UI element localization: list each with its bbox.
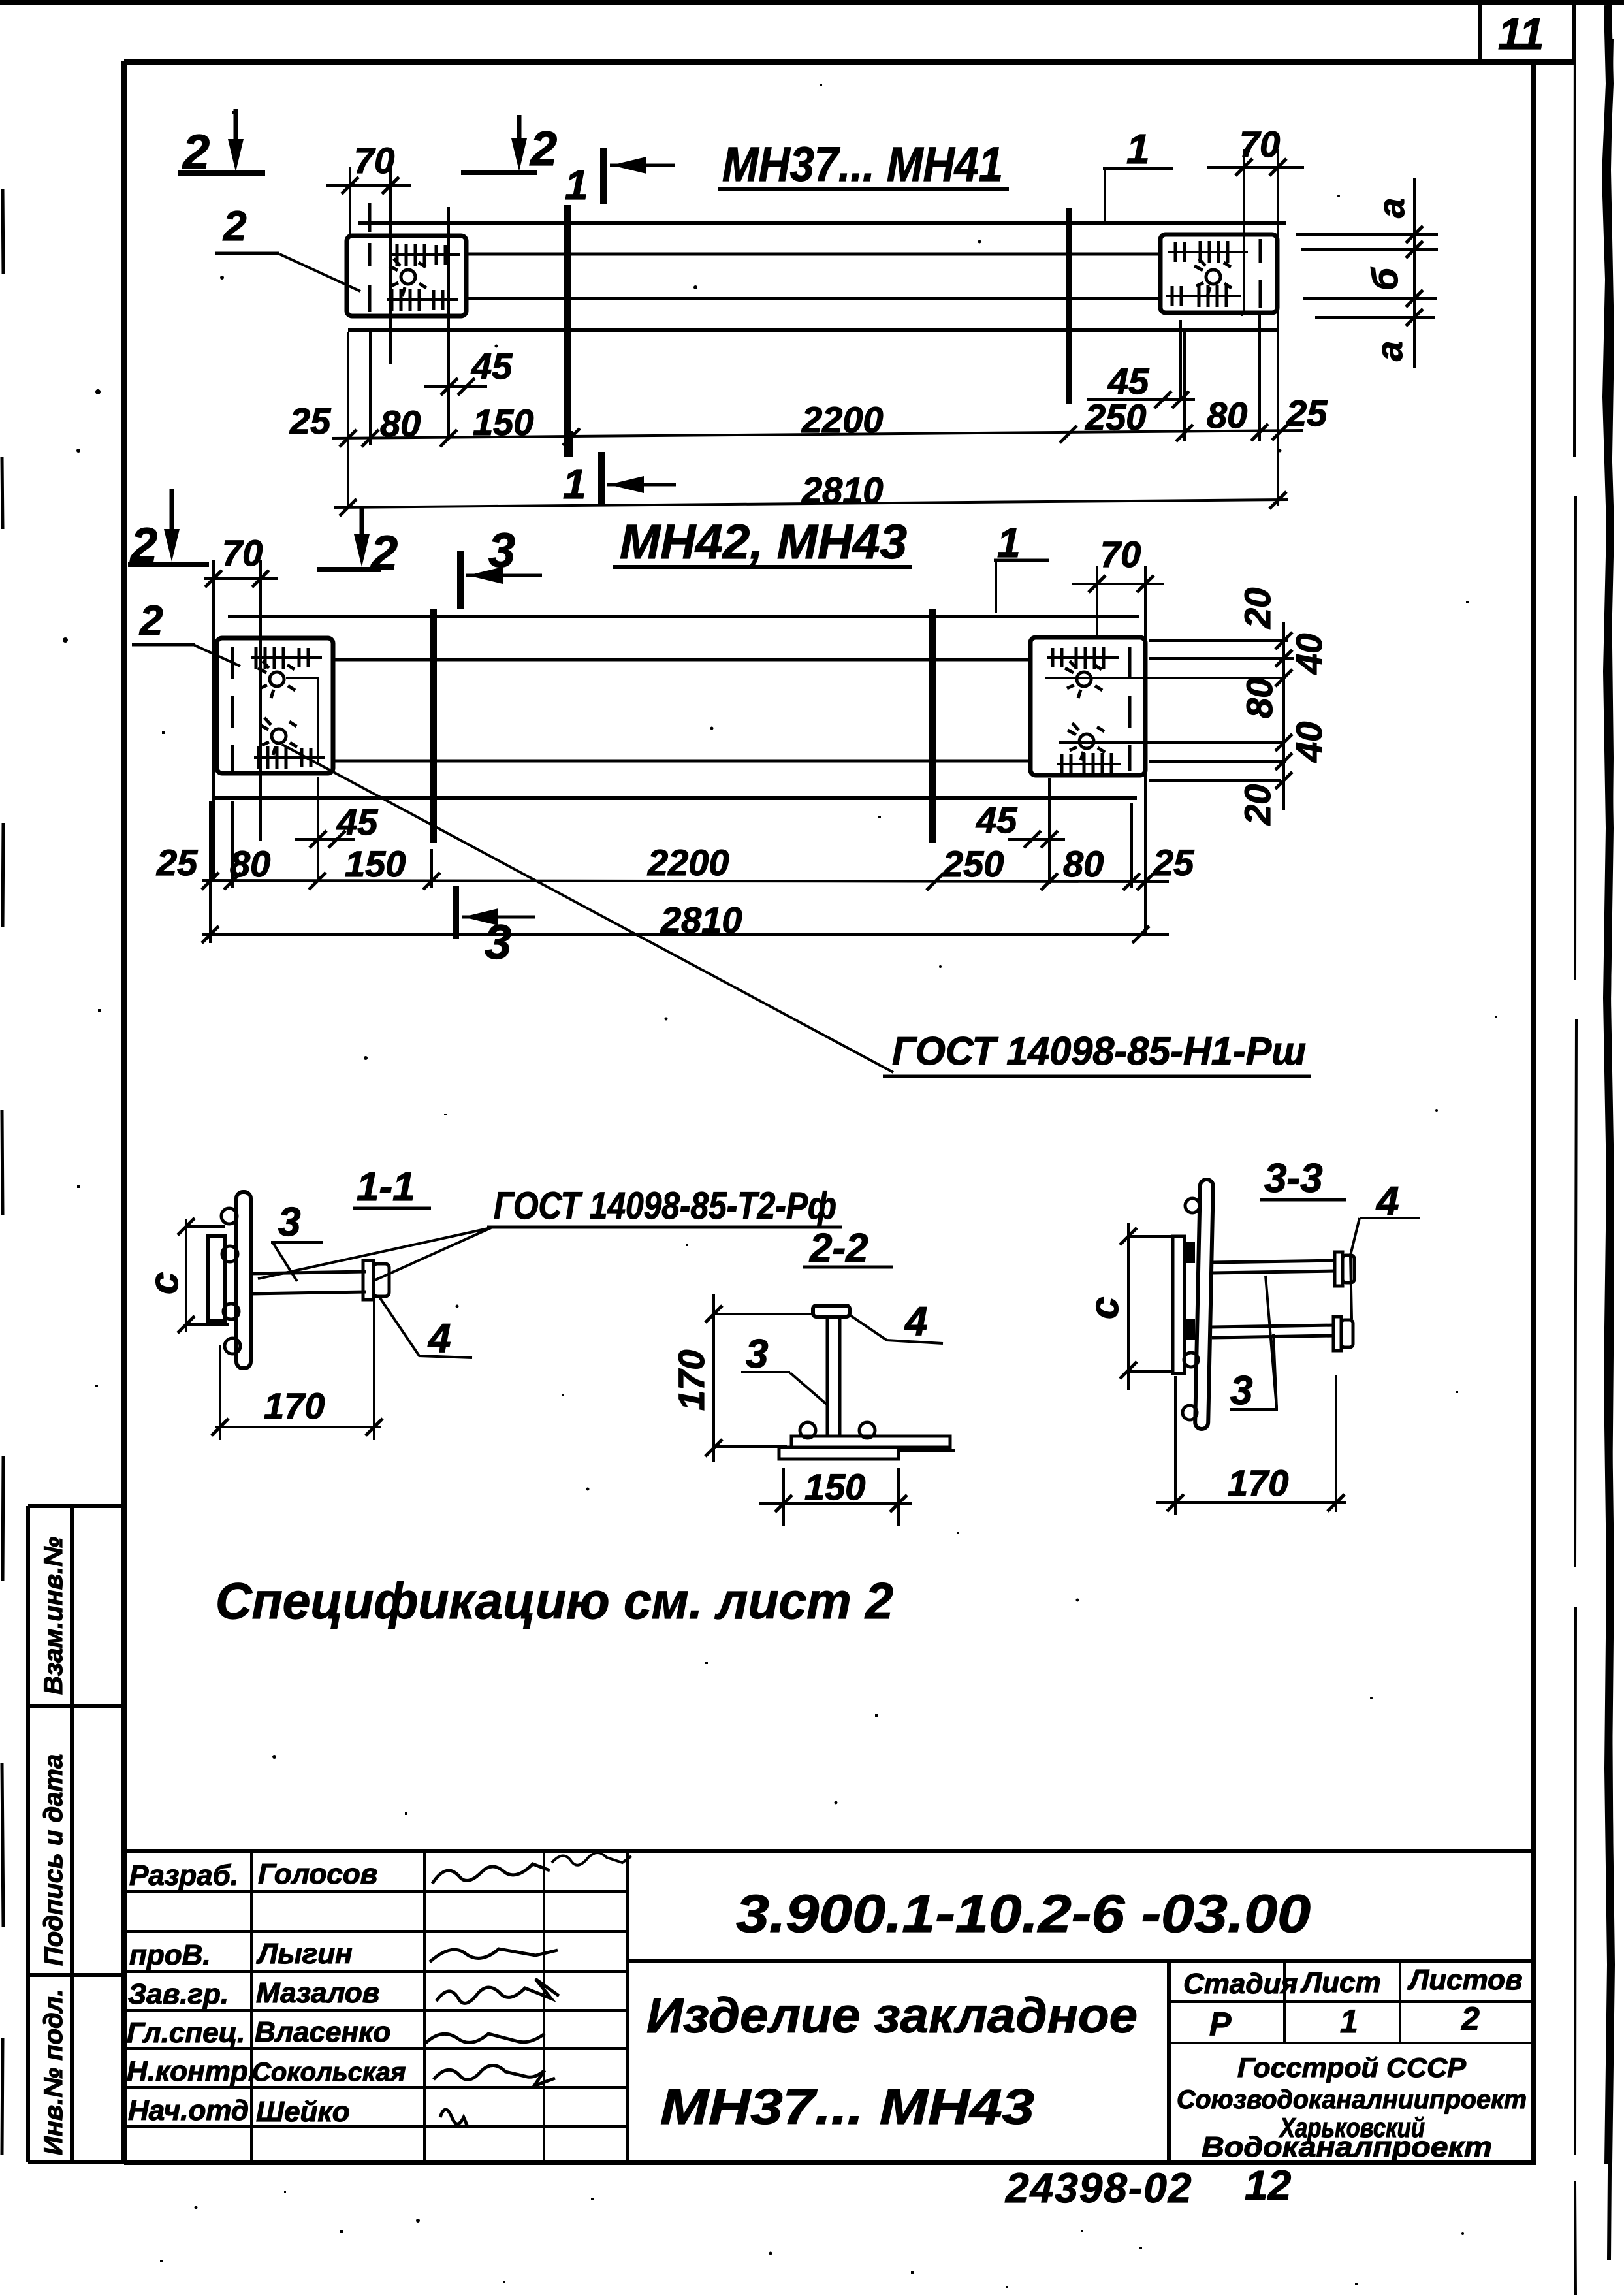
dim 45 (left)	[424, 207, 513, 439]
svg-text:Стадия: Стадия	[1183, 1968, 1298, 2000]
dim a b a (right side)	[1296, 178, 1438, 368]
svg-text:МН37... МН41: МН37... МН41	[722, 137, 1003, 191]
item 3 label (2-2)	[741, 1332, 828, 1405]
weld symbol lower (d2 right plate)	[1057, 763, 1121, 765]
svg-text:Листов: Листов	[1407, 1964, 1523, 1996]
dim 70 (d2 right)	[1072, 534, 1164, 933]
svg-text:МН42, МН43: МН42, МН43	[620, 515, 907, 569]
hidden dash line d2 right plate	[1128, 647, 1132, 771]
signature table texts	[127, 1858, 406, 2128]
lower rod (3-3)	[1212, 1325, 1335, 1327]
bar bottom edge	[465, 297, 1162, 300]
section mark 1 (bottom)	[563, 452, 676, 507]
weld symbol lower (right plate)	[1166, 295, 1241, 297]
dim 170 (3-3)	[1156, 1375, 1346, 1515]
section mark 2 (top middle)	[461, 115, 557, 176]
svg-text:а: а	[1369, 341, 1410, 361]
dim 170 (1-1)	[212, 1301, 383, 1440]
weld symbol upper (right plate)	[1168, 251, 1248, 253]
svg-text:24398-02: 24398-02	[1005, 2164, 1192, 2211]
svg-text:25: 25	[289, 400, 331, 441]
svg-text:25: 25	[156, 842, 198, 883]
section line 1-1 left (thick)	[564, 205, 571, 457]
strip top edge	[358, 221, 1286, 225]
anchor point lower (d2 right plate)	[1068, 723, 1105, 760]
svg-text:150: 150	[345, 843, 406, 884]
svg-text:150: 150	[804, 1466, 865, 1507]
upper rod (3-3)	[1212, 1260, 1336, 1262]
svg-text:Мазалов: Мазалов	[256, 1977, 379, 2009]
svg-text:4: 4	[427, 1316, 451, 1361]
svg-text:1-1: 1-1	[357, 1164, 415, 1210]
item 2 label with leader (d2)	[132, 597, 240, 666]
anchor plate right (item 2)	[1160, 234, 1277, 313]
rod circles (3-3)	[1183, 1198, 1200, 1420]
hidden dash line in left plate	[368, 203, 372, 312]
dim 170 (2-2)	[671, 1294, 814, 1462]
svg-text:Голосов: Голосов	[258, 1858, 377, 1890]
svg-text:Изделие закладное: Изделие закладное	[646, 1988, 1138, 2044]
section mark 1 (top)	[565, 148, 675, 208]
anchor plate in section	[208, 1236, 225, 1321]
title underline	[718, 187, 1009, 191]
svg-text:Госстрой СССР: Госстрой СССР	[1237, 2052, 1467, 2083]
anchor point (right plate)	[1194, 259, 1232, 296]
svg-text:с: с	[1082, 1297, 1127, 1319]
dim C (1-1)	[142, 1218, 229, 1333]
svg-text:1: 1	[565, 161, 588, 208]
section line 3-3 left (thick)	[430, 609, 437, 843]
weld blobs	[1183, 1242, 1195, 1263]
svg-text:3: 3	[746, 1332, 768, 1377]
svg-text:3.900.1-10.2-6 -03.00: 3.900.1-10.2-6 -03.00	[736, 1884, 1311, 1944]
weld symbol lower (d2 left plate)	[254, 756, 325, 759]
svg-text:80: 80	[1239, 678, 1280, 718]
dim 70 (top left)	[326, 140, 411, 364]
section mark 3 (bottom)	[456, 886, 535, 969]
scan artifact: right page edge jagged line	[1606, 5, 1611, 2164]
anchor point upper (d2 left plate)	[258, 661, 295, 698]
svg-text:70: 70	[1239, 123, 1280, 165]
strip bottom edge	[348, 328, 1279, 332]
svg-text:250: 250	[942, 843, 1004, 884]
anchor plate in section	[779, 1447, 899, 1459]
d2 bar top edge	[332, 658, 1032, 662]
rod circles (2-2)	[800, 1422, 816, 1438]
washer and nut (item 4)	[363, 1260, 374, 1300]
svg-text:Лыгин: Лыгин	[256, 1938, 353, 1970]
d2 dim row 25 80 150 2200 250 80 25	[156, 842, 1194, 890]
svg-text:1: 1	[1340, 2003, 1358, 2040]
svg-text:2200: 2200	[647, 842, 729, 883]
weld symbol upper (left plate)	[392, 253, 460, 256]
svg-text:45: 45	[336, 801, 378, 843]
strip in section (tall bar)	[1195, 1180, 1213, 1429]
dim 20/40/80/40/20 (d2 right)	[1045, 588, 1329, 826]
section mark 2 (left)	[128, 489, 209, 572]
strip in section (horizontal)	[791, 1436, 950, 1447]
bar top edge	[465, 253, 1162, 256]
dim row extension lines	[348, 314, 1260, 506]
rod circles	[221, 1208, 240, 1354]
hidden dash line d2 left plate	[231, 647, 234, 771]
svg-text:170: 170	[1228, 1462, 1288, 1503]
svg-text:а: а	[1371, 198, 1412, 218]
svg-text:45: 45	[1107, 361, 1149, 402]
svg-text:45: 45	[471, 345, 513, 387]
svg-text:Зав.гр.: Зав.гр.	[128, 1978, 229, 2010]
item 2 label with leader	[215, 202, 360, 291]
svg-text:25: 25	[1286, 393, 1328, 434]
item 4 label (2-2)	[850, 1299, 943, 1344]
svg-text:Гл.спец.: Гл.спец.	[127, 2017, 245, 2049]
upper washer (3-3)	[1335, 1252, 1343, 1286]
lower washer (3-3)	[1333, 1317, 1341, 1351]
anchor point (left plate)	[389, 259, 426, 296]
item 4 label (3-3)	[1350, 1179, 1420, 1319]
bolt head (item 4)	[813, 1306, 850, 1317]
d2 dim 2810	[202, 899, 1169, 943]
rod (item 3)	[251, 1272, 366, 1274]
svg-text:4: 4	[904, 1299, 927, 1344]
svg-text:70: 70	[354, 140, 394, 181]
section line 3-3 right (thick)	[929, 609, 936, 843]
scan speckles	[63, 195, 1464, 2255]
svg-text:45: 45	[976, 799, 1017, 841]
svg-text:1: 1	[1126, 125, 1150, 172]
sheet number box	[1480, 5, 1574, 62]
scan artifact: left edge dashes	[2, 189, 3, 2155]
svg-text:Водоканалпроект: Водоканалпроект	[1202, 2131, 1492, 2163]
item 1 leader (top right)	[1103, 125, 1173, 223]
anchor point upper (d2 right plate)	[1065, 661, 1102, 698]
section mark 2 (middle)	[317, 508, 398, 580]
svg-text:ГОСТ 14098-85-Т2-Рф: ГОСТ 14098-85-Т2-Рф	[494, 1185, 836, 1227]
dim C (3-3)	[1082, 1223, 1174, 1390]
item 1 leader (d2)	[994, 519, 1049, 613]
svg-text:Власенко: Власенко	[255, 2016, 390, 2048]
GOST H1 label with leader	[282, 745, 1311, 1076]
section mark 2 (top left)	[178, 109, 265, 179]
svg-text:170: 170	[671, 1350, 712, 1411]
svg-text:80: 80	[1207, 394, 1247, 436]
dim 45 (d2 right)	[976, 778, 1065, 884]
svg-text:с: с	[142, 1272, 187, 1294]
svg-text:20: 20	[1237, 588, 1278, 629]
scan artifact: top black bar	[0, 0, 1624, 5]
d2 strip bottom edge	[215, 796, 1137, 800]
dim 70 (top right)	[1207, 123, 1304, 506]
svg-text:2: 2	[1461, 2000, 1480, 2037]
svg-text:80: 80	[1063, 843, 1104, 884]
svg-text:3: 3	[278, 1200, 300, 1245]
svg-text:3-3: 3-3	[1264, 1156, 1323, 1201]
svg-text:Инв.№ подл.: Инв.№ подл.	[39, 1989, 68, 2155]
anchor plate left (d2)	[217, 638, 333, 773]
anchor plate left (item 2)	[347, 236, 466, 316]
svg-text:Подпись и дата: Подпись и дата	[39, 1754, 68, 1966]
svg-text:Р: Р	[1209, 2006, 1232, 2042]
title underline	[613, 565, 912, 569]
svg-text:Разраб.: Разраб.	[129, 1859, 238, 1891]
strip edge continuation	[899, 1449, 955, 1452]
svg-text:2: 2	[223, 202, 247, 249]
weld symbol upper (d2 left plate)	[251, 656, 322, 659]
svg-text:170: 170	[264, 1385, 325, 1426]
section mark 3 (top)	[460, 523, 542, 609]
svg-text:11: 11	[1498, 9, 1544, 59]
svg-text:Нач.отд: Нач.отд	[128, 2094, 249, 2126]
svg-text:12: 12	[1245, 2162, 1291, 2209]
svg-text:Н.контр.: Н.контр.	[127, 2055, 256, 2087]
section line 1-1 right (thick)	[1066, 208, 1072, 404]
svg-text:70: 70	[1100, 534, 1141, 575]
svg-text:Лист: Лист	[1300, 1966, 1381, 1998]
svg-text:б: б	[1364, 267, 1405, 291]
scan artifact: outer right trim line	[1574, 5, 1576, 2295]
weld symbol lower (left plate)	[387, 298, 458, 301]
svg-text:Взам.инв.№: Взам.инв.№	[39, 1537, 68, 1695]
svg-text:ГОСТ 14098-85-Н1-Рш: ГОСТ 14098-85-Н1-Рш	[892, 1029, 1306, 1073]
svg-text:40: 40	[1288, 634, 1329, 675]
item 4 label (1-1)	[379, 1297, 472, 1361]
svg-text:проВ.: проВ.	[129, 1939, 211, 1971]
d2 bar bottom edge	[332, 760, 1032, 763]
item 3 label (3-3)	[1230, 1276, 1278, 1413]
weld symbol upper (d2 right plate)	[1047, 656, 1119, 659]
dim 45 (d2 left)	[295, 777, 378, 880]
d2 strip top edge	[228, 615, 1139, 618]
svg-text:40: 40	[1288, 722, 1329, 763]
dim 45 (right)	[1087, 320, 1195, 408]
dim 70 (d2 left)	[204, 532, 278, 880]
dim 2810	[334, 470, 1288, 516]
anchor plate right (d2)	[1030, 637, 1145, 775]
svg-text:Спецификацию см. лист 2: Спецификацию см. лист 2	[215, 1572, 893, 1629]
hidden dash line in right plate	[1259, 239, 1262, 308]
svg-text:2: 2	[529, 121, 557, 176]
anchor point lower (d2 left plate)	[260, 718, 297, 755]
GOST T2 label with leaders	[258, 1185, 842, 1281]
svg-text:2: 2	[139, 597, 163, 644]
svg-text:Сокольская: Сокольская	[252, 2058, 406, 2087]
dim 150 (2-2)	[759, 1466, 912, 1526]
d2 dim row extensions	[210, 801, 1132, 943]
strip in section (vertical bar)	[236, 1192, 251, 1368]
first row extra signature	[552, 1853, 631, 1865]
anchor plate in section (3-3)	[1173, 1236, 1185, 1373]
item 3 label (1-1)	[271, 1200, 323, 1281]
svg-text:20: 20	[1237, 784, 1278, 826]
svg-text:1: 1	[563, 460, 586, 507]
dim row 25 80 150 2200 250 80 25	[289, 393, 1328, 447]
svg-text:25: 25	[1153, 842, 1194, 883]
svg-text:2-2: 2-2	[809, 1226, 868, 1271]
svg-text:Союзводоканалниипроект: Союзводоканалниипроект	[1177, 2085, 1527, 2114]
anchor bend line upper (d2 left)	[286, 678, 318, 765]
svg-text:МН37... МН43: МН37... МН43	[660, 2079, 1034, 2135]
svg-text:Шейко: Шейко	[256, 2096, 350, 2128]
signatures (scribbles)	[426, 1864, 559, 2126]
svg-text:3: 3	[1230, 1368, 1252, 1413]
svg-text:70: 70	[222, 532, 263, 573]
rod (item 3, vertical)	[826, 1317, 829, 1436]
